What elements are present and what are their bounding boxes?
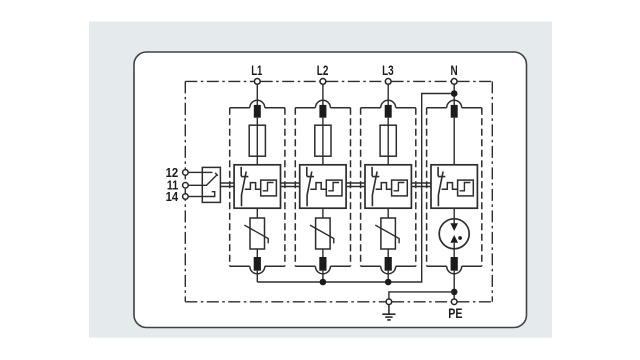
junction dot above PE [451,289,458,296]
module box L3 (dashed enclosure) [361,108,416,266]
terminal L2 [320,79,326,85]
signalling step link in box N [442,183,458,190]
SPD disconnector/monitoring box L1 [234,165,280,208]
module box L2 top entry arc [315,100,330,107]
mechanical linkage L1 to L2 (double line) [281,183,300,187]
junction dot below N terminal [451,90,458,97]
bottom disconnector L1 [254,257,261,271]
changeover contact NO hook (14) [202,192,214,197]
svg-text:L2: L2 [317,62,329,78]
earth ground symbol [382,305,395,320]
SPD disconnector/monitoring box L2 [300,165,346,208]
wire box to varistor L2 [322,208,324,218]
varistor common bus to N riser [257,94,451,283]
pulse step symbol in box L1 [263,183,274,191]
bottom disconnector L3 [385,257,392,271]
module box L1 bottom exit arc [250,266,265,274]
terminal PE [451,299,457,305]
thermal disconnector (top) L1 [254,105,261,118]
module box N top entry arc [447,100,462,107]
switch contact symbol in box N [438,167,445,206]
wire box to varistor L3 [387,208,389,218]
SPD disconnector/monitoring box N [431,165,477,208]
mechanical linkage L3 to N (double line) [411,183,431,187]
bottom disconnector L2 [319,257,326,271]
varistor L2 diagonal [310,225,334,243]
signalling step link in box L1 [245,183,261,190]
terminal 11 [183,183,189,189]
wire L3 bottom to varistor bus [387,271,389,282]
wire terminal 14 to contact box [188,196,202,198]
wire N terminal to disconnector [453,85,455,105]
backup fuse L1 [249,125,265,156]
svg-text:N: N [451,62,458,78]
changeover contact common line (11) [202,184,207,186]
wire varistor to bottom disconnector L3 [387,249,389,258]
terminal 14 [183,194,189,200]
varistor L1 [250,218,265,249]
wire disconnector to box N [453,118,455,165]
wire varistor to bottom disconnector L2 [322,249,324,258]
pulse step symbol in box N [460,183,471,191]
device boundary bottom edge (dash-dot) [185,301,492,303]
wire varistor to bottom disconnector L1 [256,249,258,258]
wire terminal 12 to contact box [188,171,202,173]
wire PE junction to earth terminal [389,292,454,299]
wire spark gap to bottom disconnector N [453,243,455,258]
gas discharge tube (spark gap) N [439,219,469,249]
varistor L3 [381,218,396,249]
module box L3 top entry arc [381,100,396,107]
thermal disconnector (top) L2 [319,105,326,118]
wire terminal 11 to contact box [188,184,202,186]
signalling pulse square in box L3 [392,180,408,196]
spark gap lower arrow [450,235,458,243]
signalling step link in box L2 [310,183,326,190]
bottom disconnector N [451,257,458,271]
module box L1 top entry arc [250,100,265,107]
remote signalling changeover contact box [202,167,220,202]
earth terminal [386,299,392,305]
white rounded schematic card [134,52,527,328]
signalling pulse square in box L2 [326,180,342,196]
wire L2 bottom to varistor bus [322,271,324,282]
pulse step symbol in box L2 [328,183,339,191]
junction dot bus L3 [385,279,392,286]
spark gap upper arrow [450,223,458,231]
wire disconnector to fuse L2 [322,118,324,165]
wire box to gas discharge tube N [453,208,455,224]
module box L2 (dashed enclosure) [295,108,350,266]
mechanical linkage contact-box to L1 (double line) [220,183,234,187]
module box L3 bottom exit arc [381,266,396,274]
svg-text:PE: PE [448,305,462,321]
wire disconnector to fuse L3 [387,118,389,165]
module box L2 bottom exit arc [315,266,330,274]
wire L1 bottom to varistor bus [256,271,258,282]
varistor L1 diagonal [244,225,268,243]
module box L1 (dashed enclosure) [230,108,285,266]
SPD disconnector/monitoring box L3 [365,165,411,208]
thermal disconnector (top) N [451,105,458,118]
thermal disconnector (top) L3 [385,105,392,118]
backup fuse L3 [380,125,396,156]
junction dot bus L2 [320,279,327,286]
wire L3 terminal to disconnector [387,85,389,105]
varistor L3 diagonal [375,225,399,243]
terminal L1 [254,79,260,85]
svg-text:L1: L1 [251,62,262,78]
signalling pulse square in box N [458,180,474,196]
signalling step link in box L3 [376,183,392,190]
changeover contact NC line (12) [202,171,212,173]
switch contact symbol in box L1 [241,167,248,206]
mechanical linkage L2 to L3 (double line) [346,183,365,187]
module box N (dashed enclosure) [427,108,482,266]
varistor L2 [316,218,331,249]
device boundary right edge (dash-dot) [491,81,493,301]
backup fuse L2 [315,125,331,156]
wire disconnector to fuse L1 [256,118,258,165]
changeover contact blade [206,173,218,186]
switch contact symbol in box L3 [372,167,379,206]
device boundary left edge (dash-dot) [184,81,186,301]
pulse step symbol in box L3 [394,183,405,191]
blue-gray panel [89,22,552,338]
signalling pulse square in box L1 [261,180,277,196]
module box N bottom exit arc [447,266,462,274]
svg-text:L3: L3 [382,62,394,78]
svg-text:14: 14 [166,189,179,204]
wire L2 terminal to disconnector [322,85,324,105]
wire N bottom to PE terminal [453,271,455,299]
terminal N [451,79,457,85]
spark gap gas dot [458,236,462,240]
wire L1 terminal to disconnector [256,85,258,105]
terminal L3 [385,79,391,85]
device boundary top edge (dash-dot) [185,80,492,82]
wire box to varistor L1 [256,208,258,218]
switch contact symbol in box L2 [307,167,314,206]
terminal 12 [183,170,189,176]
